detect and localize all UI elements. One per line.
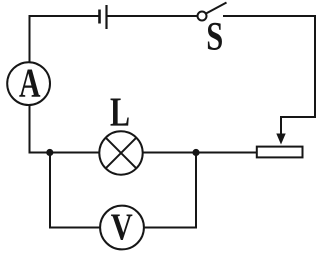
svg-text:V: V: [111, 206, 133, 248]
svg-text:L: L: [110, 88, 130, 134]
svg-text:A: A: [19, 59, 41, 105]
svg-text:S: S: [206, 14, 223, 59]
